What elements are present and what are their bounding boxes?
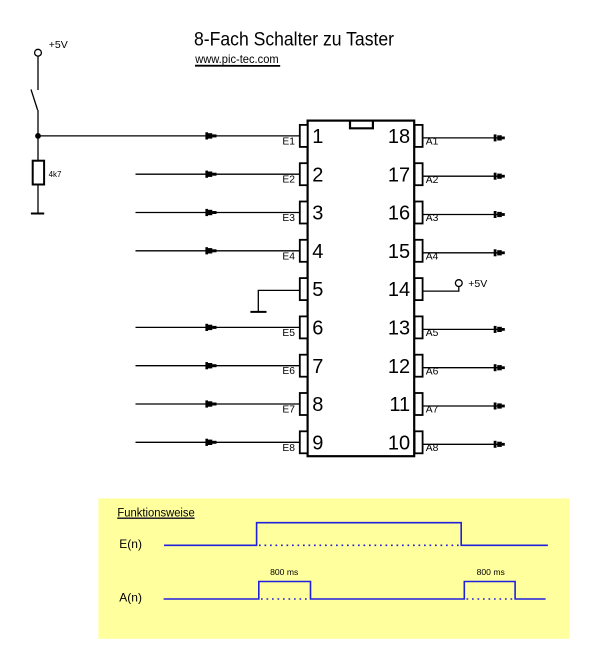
svg-text:4k7: 4k7 (49, 170, 62, 179)
wire input E7 (136, 400, 300, 407)
pin 16 box (415, 202, 423, 224)
svg-text:2: 2 (312, 164, 323, 186)
subtitle link www.pic-tec.com (194, 52, 280, 66)
pin 2 box (300, 163, 308, 185)
E(n) waveform (164, 523, 548, 546)
svg-text:E4: E4 (282, 251, 295, 262)
pin 4 box (300, 240, 308, 262)
wire input E4 (136, 247, 300, 254)
svg-text:15: 15 (388, 241, 410, 263)
svg-text:A(n): A(n) (119, 590, 142, 604)
svg-text:8-Fach Schalter zu Taster: 8-Fach Schalter zu Taster (194, 29, 394, 51)
svg-text:18: 18 (388, 126, 410, 148)
svg-text:4: 4 (312, 241, 323, 263)
pin 7 box (300, 355, 308, 377)
wire output A5 (423, 326, 505, 333)
wire output A3 (423, 211, 505, 218)
wire input E2 (136, 171, 300, 178)
svg-text:A8: A8 (426, 443, 439, 454)
A(n) waveform (164, 582, 546, 600)
svg-text:11: 11 (389, 394, 410, 416)
+5V terminal (35, 49, 42, 56)
IC U1 body (308, 121, 415, 457)
svg-text:3: 3 (312, 203, 323, 225)
wire input E5 (136, 324, 300, 331)
wire from switch to node (37, 110, 39, 136)
svg-text:14: 14 (388, 279, 410, 301)
pin 1 box (300, 125, 308, 147)
svg-text:8: 8 (312, 394, 323, 416)
svg-text:A1: A1 (426, 137, 439, 148)
label Funktionsweise (117, 506, 195, 520)
wire output A1 (423, 134, 505, 141)
svg-text:13: 13 (388, 318, 410, 340)
wire pin14 to +5V (423, 287, 459, 292)
pin 3 box (300, 202, 308, 224)
wire input E6 (136, 362, 300, 369)
svg-text:5: 5 (312, 279, 323, 301)
+5V terminal at pin14 (455, 280, 462, 287)
svg-text:E6: E6 (282, 366, 295, 377)
svg-text:17: 17 (388, 164, 410, 186)
switch S1 blade (31, 89, 38, 110)
svg-text:E7: E7 (282, 405, 295, 416)
svg-text:10: 10 (388, 432, 410, 454)
wire node to resistor (37, 136, 39, 160)
pin 6 box (300, 316, 308, 338)
svg-text:1: 1 (312, 126, 323, 148)
pin 15 box (415, 240, 423, 262)
svg-text:E5: E5 (282, 328, 295, 339)
resistor R 4k7 (33, 161, 44, 185)
pin 10 box (415, 431, 423, 453)
svg-text:16: 16 (388, 203, 410, 225)
timing diagram panel (98, 498, 569, 638)
pin 14 box (415, 278, 423, 300)
svg-text:E3: E3 (282, 213, 295, 224)
svg-text:+5V: +5V (49, 39, 68, 51)
svg-text:E(n): E(n) (119, 537, 142, 551)
pin 9 box (300, 431, 308, 453)
svg-text:A3: A3 (426, 213, 439, 224)
svg-text:E2: E2 (282, 175, 295, 186)
pin 8 box (300, 393, 308, 415)
svg-text:A2: A2 (426, 175, 439, 186)
wire output A6 (423, 364, 505, 371)
svg-text:Funktionsweise: Funktionsweise (117, 506, 195, 520)
wire pin5 to ground (258, 290, 300, 312)
wire output A2 (423, 173, 505, 180)
wire input E8 (136, 439, 300, 446)
svg-text:www.pic-tec.com: www.pic-tec.com (194, 52, 278, 66)
pin 11 box (415, 393, 423, 415)
svg-text:12: 12 (388, 356, 410, 378)
ground (left) (31, 213, 44, 215)
wire input E1 (38, 132, 300, 139)
pin 18 box (415, 125, 423, 147)
pin 13 box (415, 316, 423, 338)
node junction at E1 (35, 133, 41, 139)
svg-text:E1: E1 (282, 136, 295, 147)
wire resistor to ground (37, 185, 39, 214)
wire output A4 (423, 249, 505, 256)
svg-text:A5: A5 (426, 328, 439, 339)
svg-text:A4: A4 (426, 251, 439, 262)
wire input E3 (136, 209, 300, 216)
svg-text:9: 9 (312, 432, 323, 454)
svg-text:7: 7 (312, 356, 323, 378)
wire output A8 (423, 441, 505, 448)
ground (pin 5) (250, 311, 266, 313)
pin 12 box (415, 355, 423, 377)
svg-text:A6: A6 (426, 366, 439, 377)
pin 5 box (300, 278, 308, 300)
svg-text:E8: E8 (282, 443, 295, 454)
pin 17 box (415, 163, 423, 185)
wire output A7 (423, 403, 505, 410)
svg-text:800 ms: 800 ms (477, 567, 505, 577)
svg-text:A7: A7 (426, 405, 439, 416)
wire from +5V terminal to switch (37, 56, 39, 90)
svg-text:800 ms: 800 ms (270, 567, 298, 577)
svg-text:+5V: +5V (468, 278, 487, 290)
IC orientation notch (350, 121, 373, 128)
svg-text:6: 6 (312, 318, 323, 340)
